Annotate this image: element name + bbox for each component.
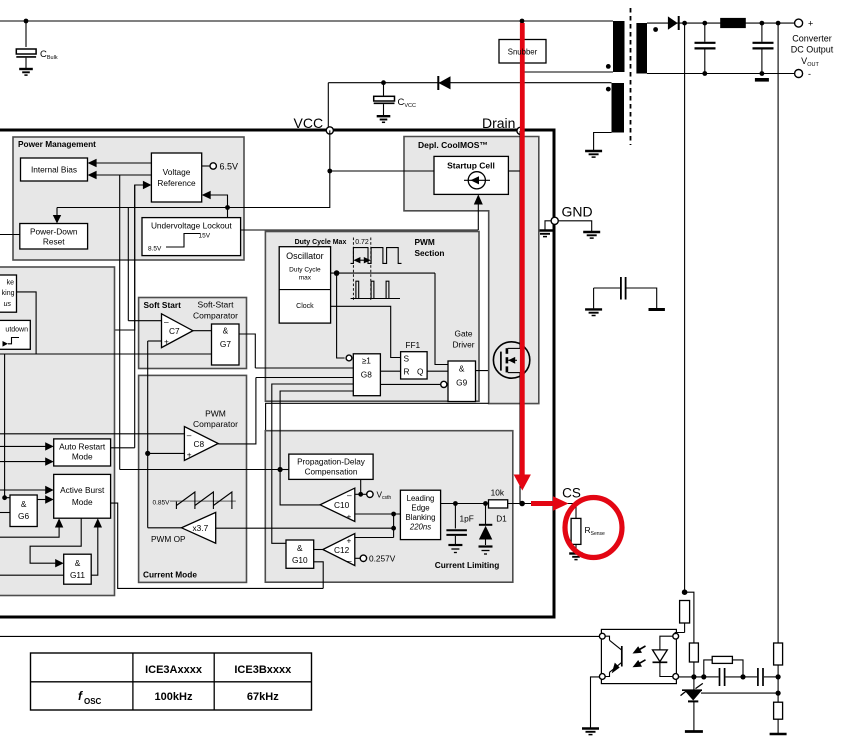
pin GND (551, 217, 558, 224)
wire opto cathode to node (678, 676, 704, 678)
wire feedback sense right (from + node) (777, 23, 779, 643)
node output junctions top (682, 21, 687, 26)
comparator C12 (323, 534, 355, 566)
svg-text:CBulk: CBulk (40, 49, 58, 61)
wire aux bottom to ground (594, 133, 612, 151)
svg-text:Converter: Converter (792, 34, 832, 44)
wire drain vertical (519, 131, 521, 348)
resistor R_fb_bottom (770, 702, 787, 734)
wire source to current limiting (266, 403, 489, 430)
svg-text:+: + (164, 337, 169, 347)
wire pdr input from left (0, 234, 20, 236)
svg-text:x3.7: x3.7 (193, 523, 209, 533)
svg-text:Q: Q (417, 367, 424, 377)
block shutdown (clipped) (0, 320, 30, 349)
svg-text:Soft Start: Soft Start (144, 300, 182, 310)
block Leading Edge Blanking (400, 490, 440, 539)
wire startup cell vcc link (330, 170, 434, 172)
wire vref to bias lower (88, 171, 152, 179)
wire G8 output to FF1 R (380, 370, 400, 372)
wire duty cycle max output (331, 272, 435, 274)
svg-text:G6: G6 (18, 511, 29, 521)
svg-text:+: + (347, 512, 352, 522)
svg-text:ICE3Bxxxx: ICE3Bxxxx (234, 664, 292, 676)
node snubber junction (520, 19, 525, 24)
wire arrow into active burst bottom 2 (91, 518, 102, 575)
node pwm-op feed junction (391, 526, 396, 531)
svg-text:Propagation-Delay: Propagation-Delay (297, 457, 366, 466)
svg-text:&: & (75, 558, 81, 568)
svg-text:Internal Bias: Internal Bias (31, 165, 77, 175)
wire clock to FF1 S (331, 306, 401, 357)
ground y-cap (585, 309, 602, 315)
wire feedback sense left (from D_out node) (684, 23, 686, 592)
node G6 input junction (2, 495, 7, 500)
IC boundary box (0, 130, 554, 617)
node startup vcc junction (327, 169, 332, 174)
node C_Bulk junction (24, 19, 29, 24)
svg-text:1pF: 1pF (460, 514, 474, 524)
gate G6 (10, 495, 37, 527)
svg-text:&: & (459, 364, 465, 374)
regulator TL431 (681, 677, 779, 732)
svg-text:+: + (347, 536, 352, 546)
block Internal Bias (21, 158, 88, 181)
svg-text:10k: 10k (491, 488, 505, 498)
block Undervoltage Lockout (142, 218, 241, 256)
svg-text:G10: G10 (292, 555, 308, 565)
svg-text:PWM OP: PWM OP (151, 534, 186, 544)
wire active burst to G11 (30, 518, 81, 567)
gate G9 (441, 361, 476, 402)
svg-text:Soft-Start: Soft-Start (198, 300, 235, 310)
ground 1pF (448, 545, 462, 553)
node cs junction (519, 501, 525, 507)
block Power-Down Reset (20, 224, 88, 250)
svg-text:Mode: Mode (72, 497, 93, 507)
wire duty to G8 inverted input (337, 273, 345, 358)
wire G9 output to gate (476, 370, 501, 372)
wire source vertical to CS (519, 373, 521, 504)
svg-text:king: king (2, 290, 15, 297)
wire vref to bias upper (88, 159, 152, 167)
waveform clock (351, 281, 400, 298)
svg-text:R: R (404, 367, 410, 377)
svg-text:PWM: PWM (415, 237, 435, 247)
wire pwm-op output (148, 527, 182, 529)
svg-text:Active Burst: Active Burst (60, 485, 105, 495)
wire bias rail drop (119, 175, 121, 470)
node red highlight circle Rsense (565, 498, 622, 558)
node vcc rail junction (225, 205, 230, 210)
diode D_vcc (438, 76, 450, 90)
comparator C10 (320, 488, 355, 521)
node tl431 junction (691, 674, 696, 679)
svg-text:Startup Cell: Startup Cell (447, 161, 495, 171)
block Propagation-Delay Compensation (289, 454, 373, 479)
terminal Vcsth (367, 490, 392, 502)
resistor R_bias (689, 643, 698, 677)
svg-text:-: - (808, 69, 811, 79)
svg-text:Mode: Mode (72, 452, 93, 462)
svg-text:67kHz: 67kHz (247, 691, 279, 703)
snubber box (499, 40, 546, 64)
capacitor C_VCC (374, 80, 416, 115)
svg-text:100kHz: 100kHz (155, 691, 193, 703)
wire G6 input 2 (0, 512, 10, 514)
resistor R_fb_top (774, 643, 783, 702)
node rc junction (701, 674, 706, 679)
svg-text:ICE3Axxxx: ICE3Axxxx (145, 664, 203, 676)
svg-text:220ns: 220ns (409, 523, 431, 532)
terminal 0.257V (360, 554, 396, 564)
capacitor comp series 2 (743, 668, 778, 686)
svg-text:OSC: OSC (84, 697, 102, 706)
wire arrow active burst 1 (0, 486, 54, 494)
capacitor Y-cap primary-secondary (594, 277, 665, 311)
block Power Management (13, 137, 244, 260)
svg-text:≥1: ≥1 (362, 356, 372, 366)
svg-text:Power-Down: Power-Down (30, 227, 78, 237)
block Depl. CoolMOS (404, 137, 539, 404)
diode opto LED (653, 636, 676, 676)
svg-text:0.85V: 0.85V (153, 500, 171, 507)
wire C12 output to G10 (314, 549, 323, 551)
wire G6 output arrow (37, 495, 54, 503)
svg-text:15V: 15V (199, 233, 211, 240)
svg-text:+: + (808, 19, 813, 29)
node C8 plus junction (145, 451, 150, 456)
svg-text:Section: Section (415, 248, 445, 258)
wire pdc input (280, 469, 289, 471)
wire arrow into power-down reset (53, 208, 61, 224)
ground opto (582, 729, 599, 735)
wire gnd pin left branch (545, 221, 551, 230)
wire G7 output to G8 (239, 334, 255, 368)
wire left vertical to G6 (5, 354, 10, 498)
node feedback divider junction (682, 589, 688, 595)
pin VCC (326, 127, 333, 134)
transistor opto phototransistor (602, 636, 645, 676)
wire C12 minus ref (355, 557, 360, 559)
wire C8 output to G8 (218, 378, 256, 444)
svg-text:Undervoltage Lockout: Undervoltage Lockout (151, 221, 232, 231)
wire duty to G9 inverted input (435, 273, 448, 364)
terminal - output (795, 70, 803, 78)
wire drain branch (under red overlay) (521, 21, 523, 131)
svg-text:&: & (21, 499, 27, 509)
svg-text:max: max (299, 275, 312, 282)
svg-text:&: & (297, 543, 303, 553)
svg-text:Edge: Edge (411, 504, 429, 513)
svg-text:Snubber: Snubber (508, 48, 538, 57)
label converter dc output (791, 34, 834, 69)
svg-text:Duty Cycle Max: Duty Cycle Max (295, 239, 347, 246)
svg-text:Clock: Clock (296, 303, 314, 310)
wire G7 to G8 input (255, 367, 353, 369)
wire C10 minus input (355, 493, 367, 495)
wire G10 output to G8 (272, 384, 354, 543)
ground C_VCC (377, 116, 391, 122)
svg-text:–: – (164, 317, 169, 327)
ground D1 (479, 547, 493, 555)
svg-text:us: us (4, 301, 12, 308)
wire C12 plus input (355, 537, 394, 539)
wire red cs arrow (531, 501, 555, 506)
svg-text:Driver: Driver (452, 340, 474, 350)
wire pwm-op input from LEB (216, 527, 394, 529)
comparator C8 (184, 427, 218, 461)
svg-text:Drain: Drain (482, 115, 515, 131)
comparator C7 (162, 314, 193, 348)
waveform sawtooth 0.85V (153, 492, 236, 509)
wire bias branch (685, 592, 694, 643)
svg-text:Comparator: Comparator (193, 311, 238, 321)
svg-text:0.257V: 0.257V (369, 554, 396, 564)
block Active Burst Mode (54, 474, 111, 518)
wire internal vcc rail (57, 130, 330, 207)
svg-text:G7: G7 (220, 339, 231, 349)
wire dashed marker left (352, 238, 354, 301)
svg-text:FF1: FF1 (405, 340, 420, 350)
svg-text:C12: C12 (334, 545, 350, 555)
block PWM Section (265, 232, 479, 402)
wire red arrowhead down (514, 475, 531, 491)
capacitor comp series (704, 668, 743, 686)
wire gnd pin right branch (559, 221, 592, 231)
svg-text:Blanking: Blanking (406, 513, 436, 522)
gate G11 (64, 554, 91, 584)
svg-text:C10: C10 (334, 500, 350, 510)
pin Drain (517, 127, 524, 134)
svg-text:Current Limiting: Current Limiting (435, 560, 500, 570)
svg-text:RSense: RSense (585, 525, 606, 537)
block Oscillator (279, 247, 330, 323)
block Startup Cell (434, 156, 508, 194)
svg-text:D1: D1 (496, 514, 507, 524)
wire LEB to cs node (441, 503, 488, 505)
wire arrow auto restart 2 (0, 457, 54, 465)
svg-text:ke: ke (7, 280, 15, 287)
svg-text:–: – (347, 556, 352, 566)
wire pdc to vcsth node (360, 479, 362, 494)
ground aux winding (585, 151, 602, 157)
block left logic group (0, 267, 115, 596)
block spike blanking (clipped) (0, 275, 17, 312)
svg-text:Leading: Leading (407, 494, 435, 503)
svg-text:Gate: Gate (455, 329, 473, 339)
transformer core dashed line (630, 8, 632, 145)
waveform duty arrow (353, 257, 370, 263)
svg-text:VCC: VCC (294, 115, 324, 131)
optocoupler U2 (601, 629, 676, 683)
capacitor 1pF (446, 504, 473, 545)
node primary polarity dot (606, 64, 611, 69)
wire secondary top (647, 22, 799, 24)
wire bias line to compensation node (120, 469, 280, 471)
wire auto restart output (111, 447, 135, 449)
svg-text:C7: C7 (169, 326, 180, 336)
wire auto restart output riser (134, 185, 136, 448)
node LEB output junction (391, 512, 396, 517)
svg-text:Voltage: Voltage (163, 167, 191, 177)
node blanking cap junction (453, 501, 458, 506)
wire active burst output to G10 (111, 503, 324, 588)
block Current Limiting (265, 431, 513, 583)
wire rail to vref arrow (202, 191, 228, 208)
wire active burst to G10 riser (314, 562, 324, 589)
table fosc (31, 653, 312, 710)
wire C8 inverting input (0, 433, 184, 435)
wire LEB output drop (393, 514, 395, 538)
svg-text:Reference: Reference (157, 178, 196, 188)
svg-text:–: – (187, 430, 192, 440)
diode D1 (479, 504, 507, 546)
svg-text:Power Management: Power Management (18, 139, 96, 149)
svg-text:Oscillator: Oscillator (286, 251, 324, 261)
wire G11 input 2 (0, 574, 64, 576)
wire feedback to optocoupler (0, 635, 600, 637)
gate G8 (346, 354, 380, 396)
svg-text:G9: G9 (456, 378, 467, 388)
ground gnd-right (583, 232, 600, 238)
wire C7 plus input (148, 340, 162, 342)
svg-text:C8: C8 (194, 439, 205, 449)
transistor Q1 CoolMOS (493, 342, 529, 378)
svg-text:Auto Restart: Auto Restart (59, 442, 106, 452)
diode D_out (668, 16, 679, 30)
svg-text:CS: CS (562, 486, 581, 501)
resistor 10k (489, 488, 508, 509)
wire C10 output to G8 (280, 391, 353, 505)
block Current Mode (139, 375, 247, 582)
transformer primary winding (613, 21, 625, 72)
wire uvlo output to startup cell (241, 194, 483, 230)
node divider junctions (776, 674, 781, 679)
terminal 6.5V reference output (202, 162, 238, 172)
svg-text:G11: G11 (70, 570, 85, 580)
wire arrow into active burst bottom 1 (0, 518, 63, 537)
svg-text:&: & (223, 326, 229, 336)
wire C7 output (193, 330, 212, 332)
node compensation junction (278, 467, 283, 472)
node comp junction (740, 674, 745, 679)
wire startup cell drain stub (508, 170, 520, 172)
svg-text:CVCC: CVCC (398, 97, 417, 109)
svg-text:+: + (187, 450, 192, 460)
svg-text:–: – (347, 490, 352, 500)
ground gnd-left (537, 231, 554, 237)
svg-text:PWM: PWM (205, 409, 226, 419)
svg-text:6.5V: 6.5V (220, 162, 239, 172)
wire pwm-op output bus (147, 341, 149, 528)
block Auto Restart Mode (54, 439, 111, 466)
wire long soft start input to G7 (0, 353, 212, 355)
wire FF1 Q to G9 (427, 370, 448, 372)
wire 10k to cs pin (507, 503, 576, 505)
wire rail to uvlo (227, 208, 229, 218)
svg-text:DC Output: DC Output (791, 45, 834, 55)
wire top rail (0, 20, 613, 22)
flipflop FF1 (401, 340, 428, 379)
ground C_Bulk (19, 69, 33, 75)
node duty cycle junction (334, 270, 340, 276)
waveform duty cycle max (351, 248, 402, 264)
block Soft Start (139, 298, 247, 369)
svg-text:S: S (404, 354, 410, 364)
svg-text:Duty Cycle: Duty Cycle (289, 267, 321, 274)
svg-text:utdown: utdown (5, 327, 28, 334)
wire C8 to G8 input (256, 377, 353, 379)
svg-text:Comparator: Comparator (193, 419, 238, 429)
chassis bar under C_out2 (755, 78, 769, 82)
wire C10 plus from LEB (355, 513, 401, 515)
wire output bottom rail (647, 73, 799, 75)
svg-text:Depl. CoolMOS™: Depl. CoolMOS™ (418, 140, 488, 150)
transformer aux winding (612, 83, 625, 133)
transformer secondary winding (636, 23, 647, 74)
ground Rsense (569, 554, 583, 560)
wire aux top / vcc supply (328, 82, 611, 84)
wire red current path (520, 23, 525, 476)
wire dashed marker right (370, 238, 372, 301)
node bottom junctions (702, 71, 707, 76)
svg-text:8.5V: 8.5V (148, 246, 162, 253)
capacitor C_out1 (695, 23, 716, 73)
wire C8 plus input (148, 452, 185, 454)
capacitor C_Bulk (16, 21, 58, 68)
amplifier PWM OP x3.7 (151, 512, 216, 544)
terminal + output (795, 19, 803, 27)
resistor comp parallel (704, 656, 743, 677)
wire C7 inverting input (128, 320, 161, 322)
gate G10 (286, 540, 314, 568)
wire arrow auto restart 1 (0, 442, 54, 450)
node secondary polarity dot (653, 27, 658, 32)
resistor Rsense (571, 504, 605, 553)
block Voltage Reference (151, 153, 201, 202)
capacitor C_out2 (753, 23, 774, 73)
resistor R_led (675, 601, 689, 635)
node d1 junction (483, 501, 488, 506)
gate G7 (212, 324, 240, 365)
svg-text:Current Mode: Current Mode (143, 570, 197, 580)
svg-text:GND: GND (562, 204, 593, 220)
svg-text:VOUT: VOUT (801, 56, 819, 68)
wire opto emitter to ground (591, 677, 600, 728)
node vcsth junction (358, 492, 363, 497)
wire shutdown to vref arrow (30, 181, 151, 330)
wire vcc pin riser (327, 83, 329, 130)
svg-text:0.72: 0.72 (355, 239, 369, 246)
inductor L_out (720, 18, 746, 28)
svg-text:Compensation: Compensation (305, 468, 358, 477)
wire spike blanking output (17, 292, 37, 354)
node aux polarity dot (606, 87, 611, 92)
wire C7 inv riser (127, 208, 129, 321)
wire primary bottom (522, 71, 613, 73)
terminal opto pins (599, 633, 605, 639)
svg-text:Reset: Reset (43, 237, 65, 247)
svg-text:G8: G8 (361, 370, 372, 380)
